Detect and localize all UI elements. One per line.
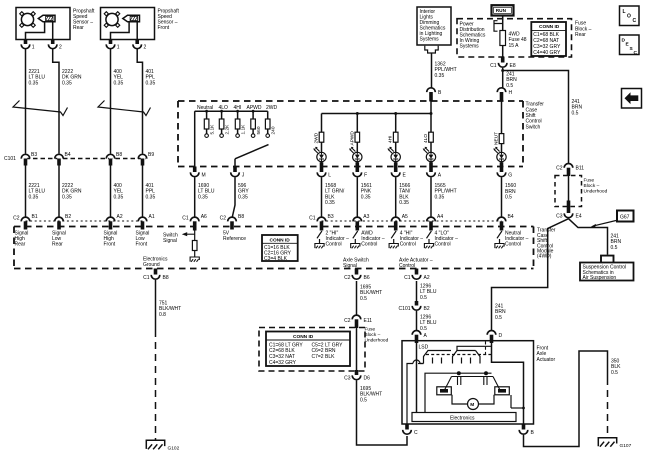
svg-text:Air Suspension: Air Suspension [583,275,617,281]
resistor 5.1K [204,110,215,138]
label 1695 BLK WHT upper [360,285,382,302]
svg-text:(4WD): (4WD) [537,254,552,260]
svg-text:G107: G107 [620,443,632,449]
G67 arrow [591,221,616,228]
svg-text:2WD: 2WD [314,132,320,143]
svg-text:Control: Control [505,242,521,248]
svg-text:Control: Control [326,242,342,248]
svg-text:Rear: Rear [52,242,63,248]
switch box label [526,102,545,131]
switch pin F [353,162,367,178]
label 350 BLK [611,359,621,376]
wire 401 upper [137,49,142,154]
C101 pin B8 [106,152,122,166]
LED column APWD [349,114,362,167]
switch pin E [391,162,406,178]
svg-text:B2: B2 [65,214,71,220]
svg-text:C101: C101 [4,156,16,162]
svg-text:C1: C1 [309,215,316,221]
wire 241 below E8 [502,68,504,88]
sensor front internal wires [111,22,138,40]
resistor ladder bus [195,110,268,112]
svg-text:A1: A1 [149,214,155,220]
wire 401 lower [142,166,144,218]
svg-text:560: 560 [256,126,262,134]
wire 751 solid [155,280,157,330]
svg-text:5.1K: 5.1K [210,124,216,135]
ground G102 [146,440,179,451]
propshaft speed sensor front box [101,8,155,40]
svg-text:0.8: 0.8 [159,312,166,318]
svg-text:E4: E4 [576,213,582,219]
module pin B4 [497,214,514,230]
fuse block underhood dashed box upper [555,176,582,207]
svg-text:O: O [627,14,631,20]
wire 1566 [395,178,397,218]
svg-text:Neutral: Neutral [197,105,213,111]
wire 1561 [356,178,358,218]
label 2222 DK GRN lower [62,183,82,200]
actuator D internal wire [492,343,524,429]
conn id box fuse rear [531,22,566,56]
svg-text:0.35: 0.35 [62,194,72,200]
svg-text:A2: A2 [424,275,430,281]
svg-text:Actuator: Actuator [537,357,556,363]
svg-text:0.5: 0.5 [420,295,427,301]
label 2221 LT BLU lower [29,183,46,200]
back arrow nav box [622,89,642,109]
fuse block underhood label upper [584,178,608,195]
switch pin B [427,88,442,102]
sensor front pin 1 [106,40,120,51]
label 1296 LT BLU upper [420,284,437,301]
svg-text:B11: B11 [576,166,585,172]
C101 pin B9 [138,152,154,166]
wire 1568 [321,178,323,218]
4 HI indicator control switch [389,231,398,248]
propshaft speed sensor rear box [16,8,70,40]
front axle actuator label [537,346,556,363]
conn id box module [262,235,298,262]
svg-text:4LO: 4LO [423,134,429,143]
svg-text:240: 240 [271,126,277,134]
wire 1296 lower [416,311,418,331]
wire 400 upper [110,49,112,154]
LED power bus [322,113,432,115]
axle switch signal text [343,257,369,269]
wire 1560 [501,178,503,218]
svg-text:B4: B4 [65,152,71,158]
svg-text:0.35: 0.35 [361,194,371,200]
text signal low front [136,231,150,248]
module pin C2 B6 [344,269,370,281]
4 HI indicator text [400,230,424,247]
wire 350 dashed [607,378,609,438]
svg-text:Rear: Rear [575,32,586,38]
svg-text:C3: C3 [344,375,351,381]
svg-text:Block –: Block – [365,332,381,338]
junction dot E8 branch [501,69,504,72]
power dist bracket [494,21,503,32]
LOC nav box [620,6,640,26]
switch pin L [317,162,331,178]
label 400 YEL upper [114,69,124,86]
suspension control box [580,263,634,281]
svg-text:Rear: Rear [73,25,84,31]
fuse block rear label [575,21,592,38]
svg-text:C1: C1 [490,63,497,69]
svg-text:C: C [634,50,638,56]
wire J inside box [234,159,236,167]
label 241 BRN right [572,99,583,116]
sensor front pickup [123,15,140,22]
svg-text:E11: E11 [364,318,373,324]
interior lights label [420,9,446,43]
svg-text:M: M [202,172,206,178]
svg-text:C2: C2 [344,318,351,324]
sensor rear internal wires [26,22,53,40]
label 401 PPL lower [146,183,156,200]
svg-text:CONN ID: CONN ID [270,237,291,243]
switch signal text and arrow [163,232,195,244]
svg-text:C1: C1 [404,275,411,281]
svg-text:Signal: Signal [163,238,177,244]
neutral indicator text [505,230,529,247]
svg-text:Control: Control [400,242,416,248]
wire RUN to fuse [502,16,504,58]
sensor front label [158,9,180,32]
2 HI indicator text [326,230,350,247]
wire through underhood box [568,176,570,201]
wire 2222 lower [58,166,60,218]
wire E4 left branch to D [492,219,569,331]
svg-text:B2: B2 [424,306,430,312]
fuse block underhood dashed box lower with conn id [259,328,365,372]
LED column 2WD [313,114,326,167]
neutral indicator control switch [495,231,504,248]
svg-text:Switch: Switch [526,124,541,130]
svg-text:15 A: 15 A [509,43,520,49]
svg-text:APWD: APWD [349,131,355,146]
suspension control label [583,265,627,282]
svg-text:B4: B4 [508,214,514,220]
connector C3 D6 [344,370,370,381]
svg-text:APWD: APWD [247,105,262,111]
connector C101 B2 [399,301,430,312]
power distribution label [460,22,486,50]
label 2221 LT BLU upper [29,69,46,86]
svg-text:M: M [470,402,474,408]
module pin C2 B8 [220,214,245,229]
svg-text:C1: C1 [143,275,150,281]
svg-text:Underhood: Underhood [584,189,608,195]
svg-text:A6: A6 [201,214,207,220]
interior lights dimming box [417,7,451,45]
svg-text:Control: Control [361,242,377,248]
svg-text:1.1K: 1.1K [241,124,247,135]
twisted pair mark rear [13,101,68,116]
svg-text:C4=32 GRY: C4=32 GRY [269,360,297,366]
svg-text:Electronics: Electronics [450,415,475,421]
svg-text:A5: A5 [402,214,408,220]
DESC nav box [620,35,640,56]
switch pin A [427,162,442,178]
wire 751 dashed [155,330,157,440]
svg-text:B9: B9 [148,152,154,158]
svg-text:Front: Front [136,242,148,248]
svg-text:0.35: 0.35 [325,200,335,206]
svg-text:Systems: Systems [460,44,480,50]
wire 2221 upper [25,49,27,154]
5V reference text [223,231,246,243]
actuator pin C [403,424,418,436]
switch pin H [497,88,512,102]
switch pin G [497,162,512,178]
interior lights plug bracket [425,46,438,53]
svg-text:2: 2 [144,44,147,50]
svg-text:G67: G67 [620,214,630,220]
svg-text:C1: C1 [182,215,189,221]
front axle actuator box [402,341,534,424]
svg-text:A3: A3 [363,214,369,220]
actuator pin D [487,331,502,344]
actuator linkage dashed [426,354,492,356]
actuator right stub [511,395,525,409]
svg-text:B3: B3 [31,152,37,158]
module label [537,228,556,260]
svg-text:RUN: RUN [496,8,507,13]
connector C3 E4 [556,201,582,220]
electronics bar [412,413,516,422]
transfer case shift control module dashed box [14,227,534,269]
label 596 GRY [238,183,249,200]
svg-text:G102: G102 [168,446,180,452]
svg-text:2: 2 [59,44,62,50]
RUN box [492,5,514,15]
svg-text:B3: B3 [328,214,334,220]
resistor 1.1K [235,110,246,138]
actuator D mech dashed link [485,342,487,355]
4 LO indicator text [435,230,459,247]
svg-text:0.5: 0.5 [495,315,502,321]
2WD HI indicator control switch [315,231,324,248]
svg-text:Ground: Ground [143,262,160,268]
svg-text:0.5: 0.5 [506,83,513,89]
suspension plug bracket [601,256,614,262]
actuator A internal wire [416,343,418,413]
svg-text:G: G [508,172,512,178]
svg-text:Control: Control [435,242,451,248]
svg-text:L: L [623,9,626,15]
dotted connector row left pins [26,220,143,222]
sensor rear pin 1 [21,40,35,51]
G67 box [617,211,634,222]
wire through underhood lower [356,328,358,370]
actuator left solenoid [437,387,452,395]
fuse 4WD 48 [500,31,506,46]
conn id box underhood [266,332,350,367]
connector C2 E11 [344,315,372,328]
svg-text:0.5: 0.5 [611,370,618,376]
wire M inside box [194,111,196,166]
module pin C1 A2 [404,269,430,281]
svg-text:LSD: LSD [419,345,429,351]
svg-text:0.35: 0.35 [29,80,39,86]
label 1568 LT GRN BLK [325,183,345,206]
LED column 4HI [387,114,400,167]
svg-text:0.35: 0.35 [435,194,445,200]
resistor 2.2K [219,110,230,138]
ground G107 [598,438,631,449]
wire B to 350 [524,351,608,447]
svg-text:0.5: 0.5 [505,195,512,201]
switch pin J [231,167,245,179]
svg-text:0.35: 0.35 [62,80,72,86]
svg-text:H: H [509,90,513,96]
svg-text:2.2K: 2.2K [225,124,231,135]
actuator right fork [453,351,481,364]
label 2222 DK GRN upper [62,69,82,86]
LED column 4LO [423,114,436,167]
svg-text:0.35: 0.35 [146,194,156,200]
actuator top bridge [457,346,492,350]
wire 1695 upper [356,281,358,315]
svg-text:C3: C3 [556,213,563,219]
fuse pin C1 E8 [490,57,516,69]
svg-text:Control: Control [399,263,415,269]
svg-text:0.35: 0.35 [399,200,409,206]
actuator brushes [458,377,488,386]
label 1695 BLK WHT lower [360,386,382,403]
svg-text:Rear: Rear [15,242,26,248]
switch pin M [190,167,205,179]
sensor front tone wheel [104,12,120,28]
label 401 PPL upper [146,69,156,86]
svg-text:Systems: Systems [420,36,440,42]
label 1362 PPL WHT [435,62,457,79]
power distribution and fuse block rear dashed box [457,19,572,57]
electronics ground text [143,256,168,268]
svg-text:Fuse: Fuse [584,178,595,184]
wire branch to B11 [503,71,569,164]
label 1690 LT BLU [198,183,215,200]
svg-text:C4=40 GRY: C4=40 GRY [533,50,561,56]
ladder position labels [197,105,278,111]
svg-text:2WD: 2WD [266,105,278,111]
svg-text:0.5: 0.5 [611,245,618,251]
resistor 560 [251,110,262,138]
svg-text:0.5: 0.5 [360,397,367,403]
svg-text:CONN ID: CONN ID [539,24,560,30]
svg-text:0.35: 0.35 [29,194,39,200]
actuator motor [452,395,494,410]
svg-text:C2: C2 [344,275,351,281]
svg-text:0.5: 0.5 [420,326,427,332]
connector C2 B11 [556,164,584,177]
svg-text:Front: Front [158,25,170,31]
switch blade J [235,145,269,159]
wire 2222 upper [53,49,59,154]
label 1560 BRN [505,183,516,200]
svg-text:D: D [499,333,503,339]
transfer case shift control switch dashed box [178,101,523,167]
svg-text:C: C [414,430,418,436]
svg-text:NEUT: NEUT [494,132,500,145]
actuator pin A [412,331,427,344]
svg-text:0.5: 0.5 [360,296,367,302]
svg-text:C: C [633,18,637,24]
module pin A4 [427,214,444,230]
label 1561 PNK [361,183,372,200]
sensor front pin 2 [133,40,147,51]
C101 pin B4 [55,152,71,166]
sensor rear tone wheel [20,12,36,28]
wire 400 lower [110,166,112,218]
svg-text:0.35: 0.35 [114,194,124,200]
svg-text:CONN ID: CONN ID [293,334,314,340]
svg-text:4HI: 4HI [388,136,394,143]
svg-text:C101: C101 [399,306,411,312]
svg-text:C7=2 BLK: C7=2 BLK [312,354,336,360]
module pin A1 [138,214,155,229]
svg-text:Block –: Block – [584,183,600,189]
twisted pair mark front [98,101,151,116]
svg-text:0.35: 0.35 [435,73,445,79]
module pin C2 B1 [13,214,38,229]
label 1565 PPL WHT [435,183,457,200]
wire 2221 lower [25,166,27,218]
svg-text:E8: E8 [510,63,516,69]
svg-text:C2: C2 [13,215,20,221]
label 1566 TAN BLK [399,183,411,206]
wire 1565 [430,178,432,218]
wire 596 [232,178,235,218]
svg-text:0.35: 0.35 [238,194,248,200]
module pin B2 [55,214,72,229]
actuator left fork [418,351,451,364]
svg-text:Underhood: Underhood [365,338,389,344]
actuator right solenoid [495,387,510,395]
bus junction dots [356,112,359,115]
svg-text:B8: B8 [116,152,122,158]
svg-text:A4: A4 [437,214,443,220]
module pin C1 A6 [182,214,207,230]
module pin C1 B8 ground [143,269,169,281]
axle actuator control text [399,257,433,269]
module pin A3 [353,214,370,230]
svg-text:B1: B1 [32,214,38,220]
fuse block underhood label lower [365,327,389,344]
svg-text:B8: B8 [163,275,169,281]
wire 1296 upper [416,281,418,301]
svg-text:C2: C2 [220,215,227,221]
wire 1362 [430,53,433,114]
resistor 240 [265,111,276,137]
sensor rear pin 2 [48,40,62,51]
connector C101 dashed line [26,158,147,160]
actuator pin B [519,424,534,436]
svg-text:0.5: 0.5 [572,110,579,116]
svg-text:Fuse: Fuse [365,327,376,333]
svg-text:F: F [364,172,367,178]
svg-text:C3=4 BLK: C3=4 BLK [264,256,288,262]
label 1296 LT BLU lower [420,315,437,332]
text signal low rear [52,231,66,248]
dotted connector row indicator pins [322,220,502,222]
module pin A5 [391,214,408,230]
svg-text:0.35: 0.35 [146,80,156,86]
sensor rear label [73,9,95,32]
